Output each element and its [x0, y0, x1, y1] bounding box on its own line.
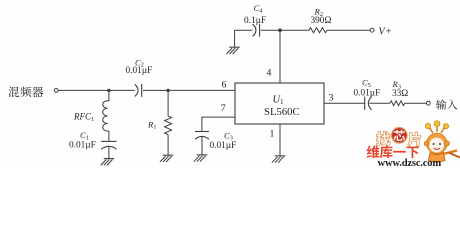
watermark dzsc logo: [376, 132, 390, 146]
node: junction at R1 branch: [166, 89, 169, 92]
resistor R3 33ohm: [390, 79, 408, 105]
wire: R1 to ground: [167, 135, 169, 156]
svg-text:0.1µF: 0.1µF: [244, 16, 266, 26]
svg-text:7: 7: [221, 103, 226, 114]
watermark 维库一下: [367, 145, 419, 158]
wire: pin 4 up to supply rail: [279, 30, 281, 83]
capacitor C4 0.1uF: [244, 3, 266, 37]
wire: rail left segment to C4: [235, 29, 253, 31]
capacitor C2 0.01uF: [126, 57, 153, 97]
svg-text:3: 3: [329, 93, 334, 104]
resistor R1: [147, 116, 172, 135]
watermark mascot: [424, 121, 460, 163]
svg-text:www.dzsc.com: www.dzsc.com: [378, 158, 442, 169]
wire: pin 7 to C3: [202, 117, 235, 131]
capacitor C5 0.01uF: [354, 78, 381, 110]
svg-text:0.01µF: 0.01µF: [69, 140, 96, 150]
wire: C4 to R2: [261, 29, 309, 31]
terminal V+: [370, 26, 392, 37]
watermark red circle 芯: [392, 128, 408, 144]
wire: R2 to V+ terminal: [327, 29, 370, 31]
capacitor C3 0.01uF: [195, 130, 236, 151]
svg-text:390Ω: 390Ω: [311, 16, 332, 26]
capacitor C1 0.01uF: [69, 130, 117, 150]
wire: C5 to R3: [370, 102, 391, 104]
ground under R1: [160, 155, 173, 162]
wire: C2 to pin 6 of U1: [143, 89, 235, 91]
ground under C3: [194, 155, 208, 162]
svg-text:RFC1: RFC1: [73, 112, 94, 124]
svg-text:0.01µF: 0.01µF: [210, 141, 237, 151]
node: junction at RFC1 branch: [107, 89, 110, 92]
wire: C4 left to ground: [234, 30, 236, 47]
svg-text:4: 4: [267, 67, 272, 78]
op-amp U1 SL560C: [235, 83, 324, 124]
wire: mixer terminal to C2: [58, 89, 134, 91]
svg-text:SL560C: SL560C: [264, 106, 300, 118]
wire: RFC1 to C1: [108, 131, 110, 141]
resistor R2 390ohm: [309, 7, 331, 33]
node: junction on supply rail: [278, 28, 282, 32]
svg-text:6: 6: [222, 79, 227, 90]
wire: C1 to ground: [108, 146, 110, 158]
ground under pin 1: [272, 156, 286, 163]
wire: C3 to ground: [201, 137, 203, 155]
ground top left: [226, 47, 239, 54]
wire: R3 to input terminal: [405, 102, 427, 104]
wire: pin 1 to ground: [279, 124, 281, 156]
label 混频器: [8, 87, 43, 98]
wire: pin 3 to C5: [324, 102, 365, 104]
terminal mixer input: [54, 89, 58, 93]
svg-text:1: 1: [270, 129, 275, 140]
svg-text:0.01µF: 0.01µF: [354, 88, 381, 98]
ground under C1: [101, 159, 115, 166]
svg-text:0.01µF: 0.01µF: [126, 66, 153, 76]
svg-text:33Ω: 33Ω: [392, 89, 408, 99]
wire: junction down to R1: [167, 90, 169, 116]
terminal 输入: [426, 99, 457, 109]
svg-text:+: +: [386, 26, 392, 37]
inductor RFC1: [73, 90, 109, 131]
